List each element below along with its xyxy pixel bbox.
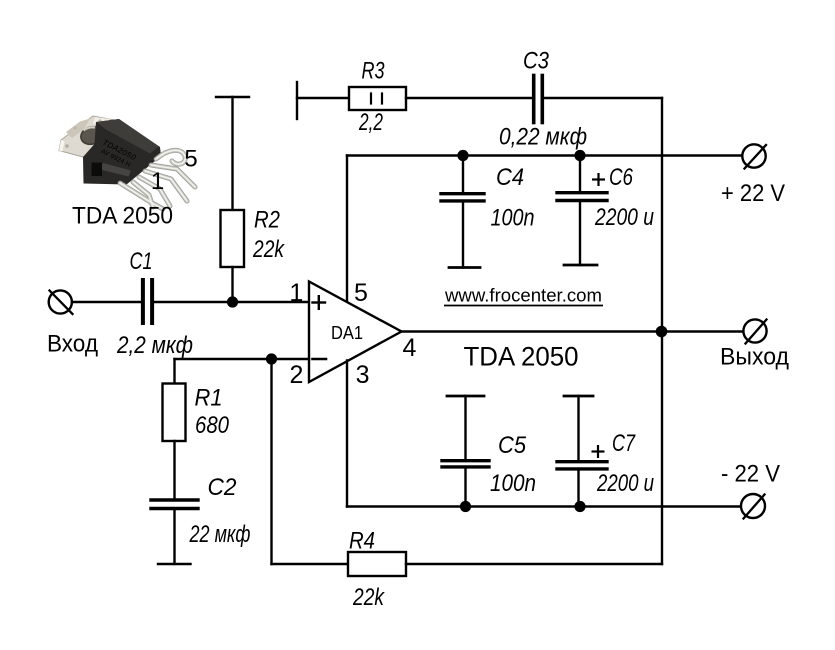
svg-text:2200 u: 2200 u: [596, 470, 654, 497]
website www.frocenter.com: [444, 286, 603, 306]
svg-text:100n: 100n: [490, 470, 536, 497]
svg-text:TDA 2050: TDA 2050: [464, 341, 579, 371]
svg-text:1: 1: [289, 279, 303, 307]
junction dot: R2/input: [227, 296, 238, 307]
wire: +22V rail: [347, 154, 742, 156]
wire: pin 2 input: [175, 358, 310, 360]
svg-text:2,2: 2,2: [358, 109, 383, 136]
svg-text:22k: 22k: [252, 236, 285, 263]
resistor R2 top terminal bar: [216, 96, 249, 98]
capacitor C5: [442, 396, 489, 507]
svg-text:C7: C7: [612, 430, 636, 457]
svg-text:C5: C5: [498, 432, 527, 459]
ground terminal bar left of R3: [296, 82, 298, 119]
svg-text:TDA 2050: TDA 2050: [72, 203, 173, 230]
svg-text:5: 5: [354, 279, 368, 307]
svg-text:C4: C4: [496, 164, 524, 191]
wire: C1 to op-amp pin 1: [154, 301, 309, 303]
svg-text:R3: R3: [362, 58, 385, 85]
minus input symbol: [313, 358, 327, 361]
resistor R3: [349, 87, 406, 110]
wire: R1 to C2: [173, 441, 175, 498]
svg-text:DA1: DA1: [331, 323, 363, 343]
resistor R4: [348, 552, 406, 576]
capacitor C6: [557, 156, 607, 266]
junction dot: C7 on -rail: [574, 501, 585, 512]
wire: feedback vertical: [270, 359, 272, 564]
svg-text:R1: R1: [195, 385, 223, 412]
svg-text:22 мкф: 22 мкф: [189, 521, 251, 548]
wire: bar to R2: [231, 97, 233, 210]
wire: R2 to input line: [231, 267, 233, 302]
plus sign C7: [592, 445, 605, 458]
svg-text:- 22 V: - 22 V: [721, 461, 780, 488]
svg-text:4: 4: [403, 334, 417, 362]
junction dot: C6 on +rail: [574, 150, 585, 161]
wire: -22V rail: [347, 505, 741, 507]
svg-text:Выход: Выход: [720, 344, 789, 371]
wire: C2 to ground: [173, 510, 175, 564]
junction dot: feedback node: [266, 353, 277, 364]
svg-text:R4: R4: [349, 528, 375, 555]
junction dot: C5 on -rail: [460, 501, 471, 512]
svg-text:1: 1: [151, 168, 164, 195]
svg-text:2200 u: 2200 u: [594, 204, 654, 231]
svg-text:3: 3: [356, 361, 370, 389]
wire: R4 to output vertical: [406, 563, 662, 565]
svg-text:2,2 мкф: 2,2 мкф: [116, 332, 193, 359]
wire: terminal to R3: [297, 97, 349, 99]
wire: C3 to right vertical: [544, 97, 662, 99]
svg-text:C1: C1: [130, 248, 153, 275]
wire: pin 5 vertical: [346, 156, 348, 304]
svg-text:R2: R2: [254, 207, 280, 234]
capacitor C4: [441, 156, 484, 268]
svg-text:22k: 22k: [352, 584, 385, 611]
svg-text:100n: 100n: [491, 205, 535, 232]
wire: right vertical output net: [661, 98, 663, 564]
svg-text:C3: C3: [523, 48, 550, 75]
svg-text:5: 5: [184, 146, 197, 173]
plus input symbol: [313, 296, 326, 309]
wire: feedback to R4: [272, 563, 349, 565]
svg-text:Вход: Вход: [47, 331, 98, 358]
capacitor C2: [151, 500, 198, 509]
svg-text:0,22 мкф: 0,22 мкф: [499, 124, 587, 151]
wire: pin 3 vertical: [346, 361, 348, 507]
capacitor C7: [557, 396, 607, 507]
terminal: -22V: [741, 494, 765, 519]
capacitor C1: [143, 280, 152, 323]
svg-text:+ 22 V: + 22 V: [721, 180, 785, 207]
plus sign C6: [592, 173, 605, 186]
wire: down to R1: [173, 359, 175, 384]
op-amp DA1: [309, 282, 402, 383]
wire: R3 to C3: [406, 97, 532, 99]
terminal: input: [49, 290, 73, 314]
ground bar under C2: [158, 563, 191, 565]
svg-text:2: 2: [289, 361, 303, 389]
junction dot: output node: [656, 326, 668, 338]
junction dot: C4 on +rail: [457, 150, 468, 161]
terminal: output: [743, 319, 766, 343]
terminal: +22V: [742, 144, 766, 168]
svg-text:www.frocenter.com: www.frocenter.com: [444, 286, 602, 306]
svg-text:680: 680: [195, 412, 230, 439]
resistor R2: [221, 210, 245, 267]
IC photo TDA2050: [59, 116, 195, 209]
svg-text:C2: C2: [208, 474, 237, 501]
svg-text:C6: C6: [609, 164, 634, 191]
wire: input to C1: [72, 301, 140, 303]
wire: output: [402, 330, 744, 332]
resistor R1: [163, 384, 186, 442]
capacitor C3: [534, 76, 543, 123]
